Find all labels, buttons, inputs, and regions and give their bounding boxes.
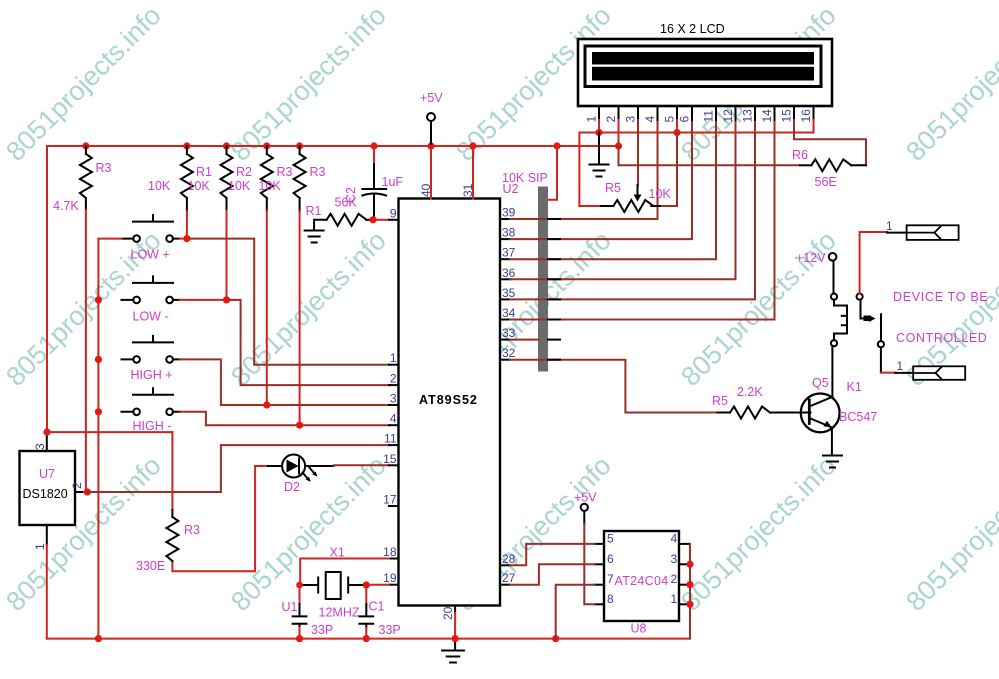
svg-text:+5V: +5V (420, 91, 443, 105)
capacitor U1 33P (299, 585, 301, 604)
svg-text:37: 37 (502, 246, 516, 260)
svg-text:R5: R5 (605, 181, 621, 195)
junction dots ground rail (296, 635, 559, 642)
svg-text:39: 39 (502, 206, 516, 220)
ground (Q5 emitter) (823, 456, 842, 468)
junction dots button common (95, 296, 102, 642)
svg-text:20: 20 (441, 606, 455, 620)
wire: U7 pin1 to ground rail (46, 545, 48, 639)
SIP pin stubs (548, 219, 560, 360)
MCU pin 39 (500, 218, 510, 220)
LED light arrows (303, 473, 308, 479)
svg-text:4: 4 (643, 116, 657, 123)
svg-text:8: 8 (607, 592, 614, 606)
svg-text:HIGH +: HIGH + (131, 368, 173, 382)
wire: U8 pin7 to ground rail (556, 585, 595, 639)
resistor R2 10K (226, 146, 228, 154)
wire: HIGH+ to MCU pin3 (180, 359, 389, 405)
svg-text:LOW +: LOW + (131, 248, 170, 262)
resistor R3 4.7K (85, 146, 87, 154)
svg-text:56K: 56K (335, 196, 358, 210)
MCU pin 18 (389, 558, 399, 560)
wire: LCD ground line (pins 1,5,16 and R5) (598, 120, 600, 133)
wire: +5V to SIP common (548, 146, 557, 200)
svg-text:12MHZ: 12MHZ (319, 606, 360, 620)
svg-text:19: 19 (383, 571, 397, 585)
svg-text:33P: 33P (379, 623, 401, 637)
MCU pin 32 (500, 359, 510, 361)
MCU pin 1 (389, 364, 399, 366)
wire: Q5 collector to relay coil (831, 346, 833, 397)
svg-text:31: 31 (461, 183, 475, 197)
LED D2 (255, 465, 268, 467)
svg-text:1uF: 1uF (382, 175, 404, 189)
U7 pin 2 (75, 491, 84, 493)
svg-text:56E: 56E (815, 175, 837, 189)
resistor R6 56E (800, 164, 811, 166)
microcontroller U1 AT89S52 (399, 199, 501, 606)
MCU pin 36 (500, 278, 510, 280)
resistor R3 10K (fourth) (299, 146, 301, 154)
wire: LCD pin5 to R5 right (676, 120, 678, 133)
MCU pin 9 (389, 219, 399, 221)
svg-text:HIGH -: HIGH - (133, 419, 172, 433)
svg-text:DEVICE TO BE: DEVICE TO BE (893, 290, 988, 304)
svg-text:X1: X1 (330, 546, 345, 560)
svg-text:11: 11 (702, 110, 716, 123)
MCU pin 38 (500, 238, 510, 240)
capacitor C2 1uF (373, 146, 375, 164)
MCU pin 31 (472, 146, 474, 199)
wire: LED cathode to MCU pin15 (334, 464, 389, 467)
svg-text:3: 3 (33, 443, 47, 450)
svg-text:1: 1 (585, 116, 599, 123)
svg-text:R3: R3 (184, 523, 200, 537)
svg-text:16 X 2 LCD: 16 X 2 LCD (660, 22, 725, 36)
svg-text:10K: 10K (188, 179, 211, 193)
wire: R1 bottom to LOW+ (186, 211, 188, 239)
svg-text:12: 12 (721, 109, 735, 123)
svg-text:4: 4 (671, 531, 678, 545)
svg-text:AT24C04: AT24C04 (615, 574, 669, 588)
svg-text:15: 15 (780, 109, 794, 123)
svg-text:7: 7 (607, 572, 614, 586)
wire: U7 pin3 +5V node (43, 429, 50, 436)
wire: MCU pin28 to U8 pin5 (510, 544, 595, 565)
MCU pin 19 (389, 584, 399, 586)
wire: relay NO contact to connector 2 (881, 372, 895, 374)
relay K1 coil (831, 294, 837, 300)
wire: R2 bottom to LOW- (226, 211, 228, 300)
svg-text:18: 18 (383, 545, 397, 559)
svg-text:BC547: BC547 (839, 410, 877, 424)
svg-text:+5V: +5V (574, 491, 597, 505)
svg-text:6: 6 (607, 552, 614, 566)
wire: DQ to MCU pin11 (87, 445, 389, 492)
resistor R3 330E (171, 432, 173, 510)
MCU pin 34 (500, 319, 510, 321)
wire: MCU pin18 to crystal (300, 559, 389, 586)
transistor Q5 BC547 (801, 394, 840, 433)
relay K1 contact arm (857, 294, 863, 300)
eeprom U8 AT24C04 (604, 531, 679, 621)
MCU pin 4 (389, 424, 399, 426)
wire: U8 pins 1-4 to ground rail (689, 544, 691, 639)
svg-text:1: 1 (33, 543, 47, 550)
svg-text:R5: R5 (712, 394, 728, 408)
pushbutton HIGH+ (133, 336, 173, 343)
wire: HIGH- to MCU pin4 (180, 412, 389, 425)
svg-text:2: 2 (604, 116, 618, 123)
svg-text:2: 2 (671, 572, 678, 586)
wire: R3b bottom to MCU pin4 net (299, 211, 301, 425)
svg-text:1: 1 (390, 351, 397, 365)
U8 pin 2 (679, 584, 690, 586)
svg-text:13: 13 (741, 109, 755, 123)
MCU pin 28 (500, 564, 510, 566)
wire: LCD pin2 to +5V rail and R6 (618, 120, 620, 146)
svg-text:10K: 10K (148, 179, 171, 193)
svg-text:11: 11 (384, 432, 397, 446)
MCU pin 27 (500, 584, 510, 586)
svg-text:U7: U7 (39, 467, 55, 481)
svg-text:R1: R1 (196, 165, 212, 179)
wire: +5V top rail (47, 145, 619, 147)
wire: MCU pin27 to U8 pin6 (510, 564, 595, 584)
pushbutton LOW- (133, 276, 173, 283)
svg-text:LOW -: LOW - (133, 310, 169, 324)
pushbutton HIGH- (133, 388, 173, 395)
svg-text:2: 2 (70, 482, 84, 489)
wire: bottom ground rail (47, 638, 690, 640)
wire: pin20 to ground rail (454, 613, 456, 639)
wire: row33 stub (510, 339, 538, 341)
svg-text:C1: C1 (369, 600, 385, 614)
U7 pin 3 (46, 433, 48, 451)
svg-text:38: 38 (502, 226, 516, 240)
U8 pin 3 (679, 563, 690, 565)
svg-text:35: 35 (502, 286, 516, 300)
svg-text:33: 33 (502, 326, 516, 340)
U8 pin 7 (595, 584, 604, 586)
ground (pin 20) (454, 639, 456, 650)
MCU pin 35 (500, 298, 510, 300)
svg-text:R6: R6 (792, 148, 808, 162)
wire: P0.1 row38 to LCD pin6 (510, 120, 692, 239)
wire: P0.0 row39 to LCD pin4 (510, 120, 658, 219)
svg-text:34: 34 (502, 306, 516, 320)
svg-text:27: 27 (502, 571, 516, 585)
svg-text:R1: R1 (306, 204, 322, 218)
svg-text:3: 3 (671, 552, 678, 566)
svg-text:CONTROLLED: CONTROLLED (896, 331, 987, 345)
svg-text:33P: 33P (311, 623, 333, 637)
wire: P0.5 row34 to LCD pin14 (510, 120, 775, 320)
svg-text:5: 5 (607, 531, 614, 545)
wire: row32 to R5 2.2K (510, 360, 718, 413)
U8 pin 6 (595, 563, 604, 565)
sensor U7 DS1820 (20, 451, 76, 525)
svg-text:4.7K: 4.7K (53, 199, 79, 213)
svg-text:DS1820: DS1820 (23, 487, 68, 501)
svg-text:32: 32 (502, 346, 516, 360)
wire: left +5V rail (46, 146, 48, 431)
MCU pin 17 (389, 505, 399, 507)
svg-text:3: 3 (624, 116, 638, 123)
svg-text:K1: K1 (847, 380, 862, 394)
resistor R1 10K (186, 146, 188, 154)
MCU pin 2 (389, 384, 399, 386)
U8 pin 5 (595, 543, 604, 545)
resistor R5 2.2K (718, 412, 731, 414)
svg-text:5: 5 (663, 116, 677, 123)
svg-text:4: 4 (390, 412, 397, 426)
ground (LCD pin1) (598, 133, 600, 164)
svg-text:330E: 330E (136, 559, 165, 573)
wire: Q5 emitter to ground (831, 428, 833, 455)
svg-text:2.2K: 2.2K (737, 385, 763, 399)
svg-text:R3: R3 (96, 161, 112, 175)
wire: +5V to U8 pin8 (584, 524, 594, 604)
svg-text:U2: U2 (503, 182, 519, 196)
U8 pin 1 (679, 603, 690, 605)
wire: R3-4.7K bottom to U7 DQ node (85, 210, 87, 492)
svg-text:10K: 10K (228, 179, 251, 193)
potentiometer R5 10K (LCD contrast) (579, 205, 601, 207)
U8 pin 8 (595, 603, 604, 605)
MCU pin 20 (454, 606, 456, 614)
MCU pin 11 (389, 444, 399, 446)
junction dots on +5V rail (82, 142, 622, 149)
wire: LCD pin3 to R5 wiper (637, 120, 639, 185)
ground (R1 56K) (305, 231, 324, 243)
wire: reset node to MCU pin9 (376, 219, 389, 221)
LCD pin stubs and numbers (585, 106, 814, 123)
svg-text:R2: R2 (236, 165, 252, 179)
svg-text:40: 40 (419, 183, 433, 197)
wire: button common to ground rail (98, 239, 121, 639)
capacitor C1 33P (365, 585, 367, 604)
wire: P0.3 row36 to LCD pin12 (510, 120, 736, 279)
wire: LOW- to MCU pin2 (180, 299, 230, 301)
resistor R1 56K (327, 214, 367, 226)
svg-text:15: 15 (383, 452, 397, 466)
wire: P0.4 row35 to LCD pin13 (510, 120, 755, 299)
svg-text:16: 16 (799, 109, 813, 123)
relay K1 fixed contact (880, 314, 882, 340)
MCU pin 3 (389, 404, 399, 406)
wire: relay common to connector 1 (860, 232, 887, 293)
wire: R3 bottom to MCU pin3 net (266, 211, 268, 405)
svg-text:6: 6 (678, 116, 692, 123)
MCU pin 40 (430, 146, 432, 199)
+5V power terminal (top) (427, 113, 435, 121)
svg-text:28: 28 (502, 552, 516, 566)
svg-text:1: 1 (671, 592, 678, 606)
svg-text:14: 14 (760, 109, 774, 123)
pushbutton LOW+ (133, 215, 173, 222)
svg-text:2: 2 (390, 372, 397, 386)
resistor R3 10K (third) (266, 146, 268, 154)
svg-text:R3: R3 (277, 165, 293, 179)
svg-text:10K: 10K (259, 179, 282, 193)
wire: U7 pin2 / DQ node (84, 488, 91, 495)
svg-text:U8: U8 (631, 622, 647, 636)
svg-text:AT89S52: AT89S52 (419, 393, 478, 407)
svg-text:D2: D2 (284, 480, 300, 494)
svg-text:17: 17 (383, 493, 397, 507)
svg-text:R3: R3 (310, 165, 326, 179)
svg-text:Q5: Q5 (812, 376, 829, 390)
MCU pin 15 (389, 464, 399, 466)
wire: LCD pin15 to R6 right (794, 120, 866, 165)
U8 pin 4 (679, 543, 690, 545)
svg-text:+12V: +12V (796, 251, 826, 265)
U7 pin 1 (46, 525, 48, 545)
node reset (junction C2/R1/pin9) (369, 216, 376, 223)
svg-text:U1: U1 (282, 600, 298, 614)
wire: LOW+ to MCU pin1 (180, 238, 190, 240)
svg-text:9: 9 (390, 206, 397, 220)
svg-text:36: 36 (502, 266, 516, 280)
wire: P0.2 row37 to LCD pin11 (510, 120, 716, 259)
wire: MCU pin19 to crystal (366, 584, 389, 586)
svg-text:3: 3 (390, 392, 397, 406)
wire: 330E to LED anode (172, 466, 255, 571)
MCU pin 37 (500, 258, 510, 260)
svg-text:1: 1 (897, 359, 904, 373)
MCU pin 33 (500, 339, 510, 341)
svg-text:1: 1 (886, 219, 893, 233)
svg-text:10K: 10K (649, 187, 672, 201)
